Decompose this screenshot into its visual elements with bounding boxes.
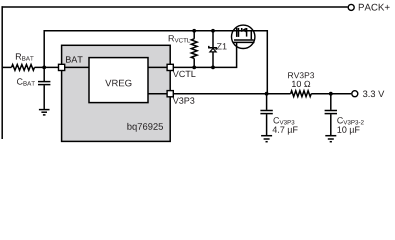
label CBAT bbox=[17, 78, 35, 85]
node junction J1 bbox=[42, 66, 46, 70]
label RBAT bbox=[16, 53, 34, 60]
node junction J7 bbox=[329, 92, 333, 96]
label RVCTL bbox=[169, 35, 190, 42]
wire: V3P3 net bbox=[174, 93, 291, 95]
label CV3P3-2 bbox=[337, 117, 363, 124]
label 4.7uF bbox=[273, 127, 298, 135]
FET bar4 bbox=[250, 31, 252, 40]
label VREG bbox=[105, 80, 131, 87]
resistor RBAT bbox=[12, 65, 35, 71]
node junction J6 bbox=[265, 92, 269, 96]
FET bar2 bbox=[238, 28, 240, 37]
capacitor CV3P3 bbox=[266, 94, 268, 110]
FET bar3 bbox=[246, 28, 248, 37]
label 10ohm bbox=[292, 81, 310, 87]
resistor RVCTL bbox=[193, 31, 195, 39]
wire: CBAT to ground bbox=[43, 85, 45, 109]
terminal PACK+ bbox=[348, 4, 354, 10]
FET channel bar bbox=[234, 39, 254, 41]
regulator block VREG bbox=[89, 58, 148, 103]
wire: BAT net riser to top rail2, through FET, down to V3P3 node bbox=[44, 31, 267, 94]
ground under CBAT bbox=[39, 110, 50, 115]
pin VCTL bbox=[167, 64, 173, 70]
resistor RV3P3 bbox=[291, 91, 312, 97]
pin V3P3 bbox=[167, 91, 173, 97]
terminal 3.3V bbox=[352, 91, 358, 97]
label 3.3 V bbox=[363, 91, 384, 98]
pin BAT bbox=[59, 64, 65, 70]
ground under CV3P3 bbox=[261, 136, 272, 142]
node junction J4 bbox=[192, 66, 196, 70]
label bq76925 bbox=[127, 123, 163, 132]
wire: VREG to BAT pin bbox=[65, 66, 89, 68]
label RV3P3 bbox=[288, 72, 314, 78]
zener diode Z1 bbox=[212, 31, 214, 48]
label Z1 bbox=[217, 43, 227, 49]
capacitor CBAT wire down bbox=[43, 67, 45, 81]
FET gate chord bbox=[234, 41, 255, 43]
node junction J2 on rail2 bbox=[192, 29, 196, 33]
wire: RBAT to BAT pin bbox=[35, 66, 59, 68]
FET bulk tick bbox=[241, 28, 243, 32]
capacitor CV3P3-2 bbox=[330, 94, 332, 110]
wire: top rail to PACK+ bbox=[2, 6, 348, 8]
FET bar1 bbox=[236, 28, 238, 37]
node junction J3 on rail2 bbox=[211, 29, 215, 33]
label 10uF bbox=[338, 126, 360, 134]
wire: VCTL net to FET gate bbox=[174, 42, 237, 67]
label PACK+ bbox=[359, 4, 390, 11]
wire: left battery stack vertical bbox=[1, 6, 3, 139]
wire: VREG to V3P3 pin bbox=[148, 93, 167, 95]
label CV3P3 bbox=[274, 117, 295, 124]
wire: VREG to VCTL pin bbox=[148, 66, 167, 68]
transistor Q1 pass FET circle bbox=[232, 25, 255, 48]
capacitor CBAT plates bbox=[38, 81, 50, 83]
label V3P3 bbox=[173, 97, 195, 103]
wire: BAT net left segment bbox=[2, 66, 12, 68]
ground under CV3P3-2 bbox=[325, 136, 336, 142]
node junction J5 bbox=[211, 66, 215, 70]
label VCTL bbox=[173, 71, 196, 77]
FET arrow bbox=[242, 28, 246, 33]
label BAT bbox=[66, 56, 83, 62]
chip U1 bq76925 body bbox=[62, 45, 171, 141]
